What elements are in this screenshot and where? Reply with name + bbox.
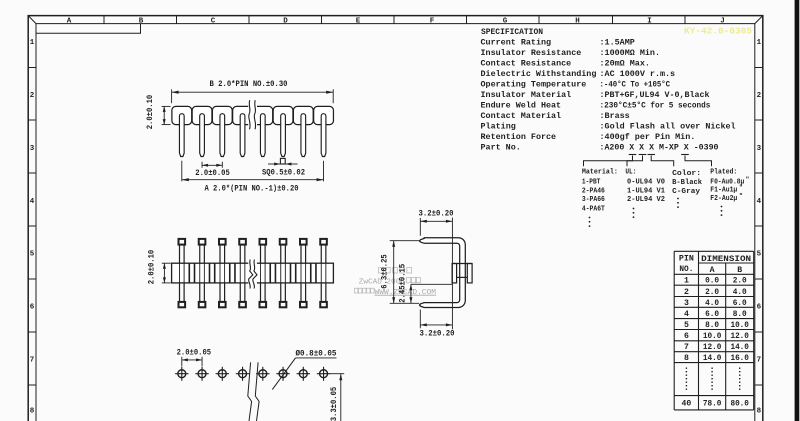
- svg-text:J: J: [720, 17, 725, 25]
- svg-text:3: 3: [30, 145, 35, 153]
- svg-text:5: 5: [757, 250, 762, 258]
- svg-text:UL:: UL:: [625, 168, 636, 176]
- svg-text:6: 6: [757, 303, 762, 311]
- svg-text:4.0: 4.0: [705, 299, 719, 308]
- black bar right edge: [795, 0, 800, 421]
- svg-text:Ø0.8±0.05: Ø0.8±0.05: [296, 350, 337, 359]
- dimension 3.2+-0.20 bottom: [420, 310, 455, 339]
- svg-text:2-PA46: 2-PA46: [582, 187, 605, 195]
- break lines footprint: [248, 362, 259, 421]
- svg-text:Insulator Material: Insulator Material: [481, 90, 572, 100]
- right-angle pin side view: [420, 238, 466, 308]
- legend UL column: [625, 168, 665, 218]
- svg-text:12.0: 12.0: [730, 332, 749, 341]
- zone letters A-J: [67, 17, 725, 25]
- dimension 2.0+-0.05 footprint pitch: [177, 350, 212, 367]
- table last row pin 40: [681, 400, 749, 409]
- svg-text:5: 5: [30, 250, 35, 258]
- svg-text:4-PA6T: 4-PA6T: [582, 205, 605, 213]
- connector front view: insulator heads: [172, 106, 334, 124]
- dimension B 2.0*PIN NO. +-0.30: [172, 81, 334, 103]
- svg-text:3: 3: [757, 145, 762, 153]
- svg-text:8: 8: [30, 407, 35, 415]
- zone numbers right 1-8: [757, 39, 762, 416]
- dimension 2.45+-0.15: [399, 264, 452, 304]
- svg-text:A: A: [67, 17, 72, 25]
- leader lines to legend: [584, 156, 712, 167]
- svg-text:40: 40: [681, 400, 691, 409]
- svg-text:14.0: 14.0: [730, 343, 749, 352]
- svg-text::PBT+GF,UL94 V-0,Black: :PBT+GF,UL94 V-0,Black: [600, 90, 710, 100]
- side view: pins through body: [179, 239, 327, 307]
- svg-text:6: 6: [684, 332, 689, 341]
- ZwCAD trial watermark line 3: [354, 288, 436, 297]
- break lines front view: [248, 100, 257, 131]
- svg-text:2: 2: [757, 92, 762, 100]
- svg-text:4: 4: [757, 198, 762, 206]
- svg-text:Material:: Material:: [582, 168, 618, 176]
- svg-text:A: A: [710, 266, 715, 275]
- svg-text:2.0±0.10: 2.0±0.10: [147, 94, 155, 129]
- legend material column: [582, 168, 618, 227]
- svg-text:4: 4: [684, 310, 689, 319]
- svg-text:1: 1: [684, 277, 689, 286]
- svg-text:PIN: PIN: [679, 255, 694, 264]
- side view: section joint lines: [189, 263, 316, 283]
- break lines side view: [248, 259, 257, 288]
- zone ticks left: [28, 68, 36, 386]
- svg-text:B 2.0*PIN NO.±0.30: B 2.0*PIN NO.±0.30: [210, 81, 288, 89]
- ZwCAD trial watermark line 1: [379, 267, 412, 273]
- svg-text:2.0: 2.0: [733, 277, 747, 286]
- svg-text::AC 1000V r.m.s: :AC 1000V r.m.s: [600, 69, 676, 79]
- svg-text::1.5AMP: :1.5AMP: [600, 38, 635, 48]
- svg-text:3: 3: [684, 299, 689, 308]
- svg-text:6.0: 6.0: [733, 299, 747, 308]
- svg-text:10.0: 10.0: [730, 321, 749, 330]
- legend color column: [672, 170, 702, 208]
- svg-text:8.0: 8.0: [733, 310, 747, 319]
- svg-text:Plating: Plating: [481, 122, 516, 132]
- pin side view: insulator cross-section: [452, 264, 472, 283]
- svg-text:2.45±0.15: 2.45±0.15: [399, 264, 407, 303]
- svg-text:Plated:: Plated:: [710, 168, 737, 176]
- title strip box top-left: [36, 24, 141, 34]
- svg-text:80.0: 80.0: [730, 400, 749, 409]
- svg-text:7: 7: [684, 343, 689, 352]
- pin dimension table grid: [674, 251, 754, 410]
- svg-text:Color:: Color:: [672, 170, 701, 178]
- svg-text:KY-42.0-0305: KY-42.0-0305: [684, 26, 752, 37]
- svg-text::-40°C To +105°C: :-40°C To +105°C: [600, 80, 671, 90]
- svg-text::1000MΩ Min.: :1000MΩ Min.: [600, 48, 661, 58]
- svg-text:Dielectric Withstanding: Dielectric Withstanding: [481, 69, 597, 79]
- dimension 3.2+-0.20 top: [419, 210, 454, 235]
- svg-text:2.0±0.05: 2.0±0.05: [195, 170, 230, 178]
- svg-text::400gf per Pin Min.: :400gf per Pin Min.: [600, 132, 696, 142]
- svg-text:7: 7: [30, 356, 35, 364]
- svg-text:6: 6: [30, 303, 35, 311]
- svg-text:6.3±0.25: 6.3±0.25: [381, 254, 389, 289]
- footprint holes: [175, 367, 330, 381]
- table header text: [679, 255, 751, 275]
- svg-text::20mΩ Max.: :20mΩ Max.: [600, 59, 650, 69]
- svg-text:4: 4: [30, 198, 35, 206]
- svg-text:0-UL94 V0: 0-UL94 V0: [627, 179, 665, 187]
- svg-text:3.3±0.05: 3.3±0.05: [331, 386, 339, 421]
- svg-text:2.0±0.10: 2.0±0.10: [149, 249, 157, 284]
- svg-text:A 2.0*(PIN NO.-1)±0.20: A 2.0*(PIN NO.-1)±0.20: [205, 185, 299, 193]
- svg-text:3-PA66: 3-PA66: [582, 196, 605, 204]
- svg-text:7: 7: [757, 356, 762, 364]
- svg-text::Gold Flash all over Nickel: :Gold Flash all over Nickel: [600, 122, 736, 132]
- svg-text:78.0: 78.0: [703, 400, 722, 409]
- dimension SQ0.5+-0.02 pin square: [262, 158, 305, 177]
- svg-text:Contact Material: Contact Material: [481, 111, 562, 121]
- svg-text:3.2±0.20: 3.2±0.20: [419, 210, 454, 218]
- svg-text:F1-Au1μ: F1-Au1μ: [710, 187, 737, 195]
- svg-text:8.0: 8.0: [705, 321, 719, 330]
- svg-text:Part No.: Part No.: [481, 143, 521, 153]
- shared extension line: [451, 218, 453, 330]
- svg-text:Operating Temperature: Operating Temperature: [481, 80, 587, 90]
- leader dia 0.8+-0.05: [272, 350, 336, 390]
- svg-text:F: F: [430, 17, 435, 25]
- svg-text:14.0: 14.0: [703, 354, 722, 363]
- svg-text:12.0: 12.0: [703, 343, 722, 352]
- svg-text:2.0: 2.0: [705, 288, 719, 297]
- svg-text:G: G: [503, 17, 508, 25]
- svg-text:H: H: [575, 17, 580, 25]
- table ellipsis row: [686, 368, 739, 391]
- svg-text:Insulator Resistance: Insulator Resistance: [481, 48, 582, 58]
- svg-text:4.0: 4.0: [733, 288, 747, 297]
- svg-text:I: I: [647, 17, 652, 25]
- dimension 2.0+-0.10 front view height: [147, 94, 171, 129]
- svg-text:B-Black: B-Black: [672, 179, 702, 187]
- zone numbers left 1-8: [30, 39, 35, 416]
- svg-text:F2-Au2μ: F2-Au2μ: [710, 195, 737, 203]
- svg-text:1-PBT: 1-PBT: [582, 179, 601, 187]
- svg-text:1-UL94 V1: 1-UL94 V1: [627, 187, 665, 195]
- svg-text:SQ0.5±0.02: SQ0.5±0.02: [262, 170, 305, 178]
- svg-text:Contact Resistance: Contact Resistance: [481, 59, 572, 69]
- svg-text::A200 X X X M-XP X -0390: :A200 X X X M-XP X -0390: [600, 143, 719, 153]
- svg-text:16.0: 16.0: [730, 354, 749, 363]
- table data rows: [684, 277, 749, 363]
- legend plated column: [710, 168, 749, 216]
- zone ticks right: [755, 68, 763, 386]
- dimension 6.3+-0.25: [381, 241, 419, 304]
- dimension A 2.0*(PIN NO.-1)+-0.20: [182, 161, 324, 194]
- svg-text:DIMENSION: DIMENSION: [701, 255, 751, 264]
- svg-text::Brass: :Brass: [600, 111, 630, 121]
- svg-text:C: C: [211, 17, 216, 25]
- svg-text:8: 8: [757, 407, 762, 415]
- svg-text:": ": [739, 184, 743, 191]
- svg-text:D: D: [283, 17, 288, 25]
- svg-text:3.2±0.20: 3.2±0.20: [420, 331, 455, 339]
- svg-text:1: 1: [30, 39, 35, 47]
- svg-text:B: B: [139, 17, 144, 25]
- svg-text:Retention Force: Retention Force: [481, 132, 557, 142]
- svg-text:B: B: [737, 266, 742, 275]
- svg-text:2-UL94 V2: 2-UL94 V2: [627, 196, 665, 204]
- dimension 3.3+-0.05 footprint: [330, 374, 344, 421]
- connector front view: pins/legs: [179, 114, 325, 157]
- svg-text:8: 8: [684, 354, 689, 363]
- ZwCAD trial watermark line 2: [359, 278, 421, 287]
- zone ticks top: [104, 16, 685, 24]
- specification block: [481, 27, 736, 153]
- svg-text:2.0±0.05: 2.0±0.05: [177, 350, 212, 358]
- svg-text:C-Gray: C-Gray: [672, 188, 701, 196]
- svg-text:NO.: NO.: [679, 265, 693, 274]
- svg-text:2: 2: [684, 288, 689, 297]
- svg-text:": ": [739, 193, 743, 200]
- svg-text:2: 2: [30, 92, 35, 100]
- svg-text:5: 5: [684, 321, 689, 330]
- svg-text:E: E: [356, 17, 361, 25]
- svg-text:": ": [746, 176, 750, 183]
- side view: insulator strip body: [172, 263, 334, 283]
- part no. X underlines: [629, 154, 689, 156]
- svg-text:SPECIFICATION: SPECIFICATION: [481, 27, 543, 37]
- svg-text::230°C±5°C for 5 seconds: :230°C±5°C for 5 seconds: [600, 101, 711, 111]
- svg-text:Endure Weld Heat: Endure Weld Heat: [481, 101, 562, 111]
- svg-text:6.0: 6.0: [705, 310, 719, 319]
- dimension 2.0+-0.05 pitch: [195, 162, 230, 179]
- dimension 2.0+-0.10 side view: [149, 249, 171, 284]
- svg-text:Current Rating: Current Rating: [481, 38, 552, 48]
- svg-text:10.0: 10.0: [703, 332, 722, 341]
- svg-text:0.0: 0.0: [705, 277, 719, 286]
- svg-text:1: 1: [757, 39, 762, 47]
